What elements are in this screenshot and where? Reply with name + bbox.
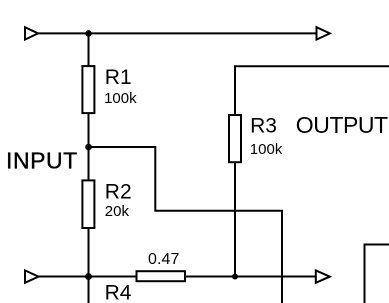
wire output branch through R3 bbox=[235, 66, 389, 276]
svg-text:R4: R4 bbox=[105, 281, 132, 303]
svg-text:100k: 100k bbox=[250, 141, 283, 158]
svg-text:OUTPUT: OUTPUT bbox=[296, 112, 388, 138]
node junction top bbox=[85, 30, 92, 37]
terminal arrow top-right bbox=[317, 27, 330, 39]
wire left vertical branch bbox=[88, 33, 90, 303]
svg-text:0.47: 0.47 bbox=[148, 251, 180, 268]
resistor R3 bbox=[229, 115, 283, 163]
resistor R2 bbox=[82, 180, 131, 228]
terminal arrow bottom-right bbox=[316, 270, 330, 282]
svg-text:20k: 20k bbox=[105, 203, 130, 220]
svg-text:INPUT: INPUT bbox=[6, 148, 78, 174]
wire bottom rail bbox=[38, 276, 316, 278]
svg-text:R3: R3 bbox=[250, 115, 277, 138]
svg-text:R2: R2 bbox=[105, 180, 132, 203]
node bottom-left junction bbox=[85, 273, 92, 280]
svg-text:100k: 100k bbox=[104, 90, 137, 107]
node bottom-right junction bbox=[232, 274, 238, 280]
wire top rail bbox=[38, 32, 317, 34]
svg-text:R1: R1 bbox=[105, 66, 132, 89]
terminal arrow bottom-left bbox=[25, 270, 39, 282]
resistor R1 bbox=[82, 66, 137, 113]
wire input node path bbox=[89, 147, 283, 303]
node INPUT junction bbox=[85, 144, 92, 151]
wire component box corner bbox=[365, 245, 389, 303]
terminal arrow top-left bbox=[25, 27, 38, 39]
resistor 0.47 bbox=[137, 251, 186, 281]
